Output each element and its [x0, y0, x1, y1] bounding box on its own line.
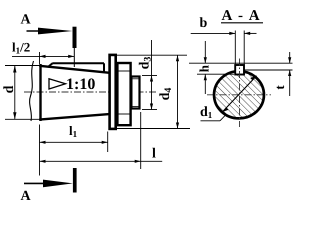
- svg-text:d: d: [2, 85, 17, 93]
- washer: [110, 55, 116, 129]
- section arrow A top: [27, 30, 46, 32]
- svg-text:b: b: [200, 16, 208, 31]
- svg-text:h: h: [197, 64, 212, 72]
- svg-text:A - A: A - A: [222, 8, 262, 24]
- svg-text:l: l: [152, 147, 156, 162]
- break line: [30, 61, 34, 121]
- svg-text:l1/2: l1/2: [12, 40, 30, 56]
- svg-text:t: t: [272, 85, 287, 90]
- section circle with hatch: [214, 71, 264, 118]
- d1 diameter dimension: [222, 76, 256, 112]
- section circle centerlines: [207, 94, 271, 96]
- section vertical centerline: [239, 59, 241, 128]
- centerline shaft axis: [24, 91, 157, 93]
- section arrow A bottom: [24, 182, 48, 184]
- nut: [117, 63, 130, 125]
- threaded stub: [131, 77, 139, 109]
- thread lines: [130, 78, 140, 80]
- dimension d: [5, 66, 41, 120]
- svg-text:A: A: [21, 189, 32, 204]
- nut facet lines: [117, 70, 131, 72]
- key cross-section: [235, 65, 244, 75]
- svg-text:A: A: [21, 13, 32, 28]
- taper symbol 1:10: [49, 79, 66, 89]
- cone shaft end: [39, 64, 111, 121]
- svg-text:1:10: 1:10: [66, 76, 95, 93]
- key on cone: [48, 63, 104, 72]
